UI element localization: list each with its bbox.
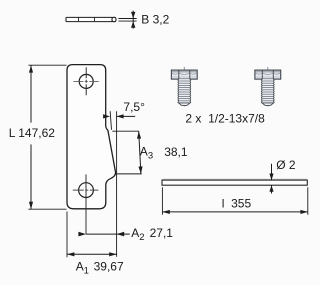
plate side view (thickness B)	[66, 17, 113, 21]
angle dim vertical reference / right extension line	[116, 111, 118, 257]
dimension L top extension	[28, 64, 66, 66]
svg-text:7,5°: 7,5°	[123, 100, 145, 114]
dimension L line upper segment	[30, 65, 32, 122]
svg-text:3: 3	[148, 151, 153, 162]
lower hole vertical centerline / A2 left extension	[85, 174, 87, 234]
side view hole mark 2	[94, 18, 96, 22]
dimension A3 line	[139, 131, 141, 174]
angle dim tab edge extension line	[110, 111, 111, 130]
dimension dia2 arrow down	[269, 174, 273, 181]
svg-text:A: A	[76, 259, 84, 273]
dimension l arrow right	[300, 210, 307, 214]
dimension dia2 arrow up	[269, 185, 273, 192]
svg-text:1: 1	[84, 265, 89, 276]
dimension A3 arrow bottom	[138, 166, 142, 174]
dimension l left extension	[161, 187, 163, 215]
bolt right threaded shank	[262, 79, 273, 103]
dimension A2 right arrow (outside)	[117, 232, 125, 237]
dimension l arrow left	[162, 210, 169, 214]
side view bent tab tip	[112, 17, 116, 21]
side view hole mark 1	[78, 18, 80, 22]
svg-text:2: 2	[139, 232, 144, 243]
bolt left threaded shank	[179, 79, 190, 103]
lower hole horizontal centerline	[73, 189, 99, 191]
dimension L line lower segment	[30, 144, 32, 209]
svg-text:A: A	[140, 145, 148, 159]
svg-text:B 3,2: B 3,2	[141, 13, 169, 27]
dimension l line	[162, 211, 307, 213]
dimension A1 line	[67, 253, 117, 255]
dimension L arrow bottom	[29, 202, 33, 209]
dimension A2 tail	[117, 233, 130, 235]
svg-text:Ø 2: Ø 2	[276, 158, 296, 172]
rod (wire, diameter 2)	[162, 180, 307, 185]
bolt left tip	[179, 103, 190, 106]
svg-text:A: A	[131, 226, 139, 240]
upper hole	[79, 74, 93, 88]
svg-text:38,1: 38,1	[164, 145, 188, 159]
svg-text:27,1: 27,1	[150, 226, 174, 240]
svg-text:39,67: 39,67	[94, 259, 124, 273]
bolt left hex head	[171, 70, 197, 79]
rod top shading	[163, 178, 307, 180]
angle dim tail line	[117, 115, 136, 117]
bolt right hex head	[255, 70, 281, 79]
svg-text:L 147,62: L 147,62	[9, 126, 56, 140]
bolt right centerline	[267, 67, 269, 107]
upper hole horizontal centerline	[73, 80, 98, 82]
dimension B arrow top	[131, 12, 135, 18]
dimension A1 left arrow	[67, 252, 74, 256]
dimension L bottom extension	[28, 208, 66, 210]
svg-text:2 x 1/2-13x7/8: 2 x 1/2-13x7/8	[185, 112, 265, 126]
dimension A1 right arrow	[109, 252, 116, 256]
dimension l right extension	[307, 187, 309, 215]
dimension dia2 lower line	[271, 185, 273, 193]
angle dim right arrow	[117, 114, 124, 118]
lower hole	[79, 183, 94, 198]
dimension A3 top connector	[112, 130, 139, 132]
angle dim left arrow	[103, 114, 110, 118]
bolt left centerline	[183, 67, 185, 107]
dimension A1 left extension	[66, 212, 68, 258]
dimension B line	[132, 11, 134, 29]
dimension B extension line top	[118, 18, 136, 20]
dimension dia2 upper line	[271, 164, 273, 180]
dimension A3 bottom connector	[116, 173, 142, 175]
dimension A2 line	[86, 233, 117, 235]
locking plate outline	[67, 65, 116, 209]
dimension B arrow bottom	[131, 21, 135, 27]
dimension A3 arrow top	[137, 131, 141, 139]
upper hole vertical centerline	[85, 67, 87, 95]
dimension A2 left arrow (outside)	[78, 232, 86, 237]
dimension B extension line bottom	[118, 20, 136, 22]
bolt right tip	[262, 103, 273, 106]
svg-text:l 355: l 355	[222, 196, 252, 210]
dimension L arrow top	[29, 65, 33, 72]
